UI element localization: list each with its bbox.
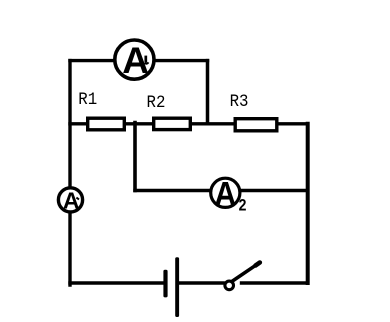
svg-text:2: 2 (239, 196, 247, 214)
svg-text:A: A (63, 188, 80, 214)
svg-text:A: A (214, 175, 236, 213)
svg-text:R1: R1 (78, 89, 97, 109)
svg-text:R3: R3 (230, 91, 249, 111)
svg-text:R2: R2 (147, 92, 166, 112)
